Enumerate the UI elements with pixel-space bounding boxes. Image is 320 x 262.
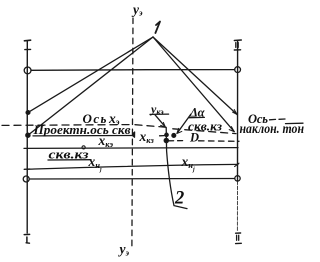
lower-right pulley circle: [235, 176, 240, 181]
node 2b on leader: [164, 138, 168, 142]
measurement tick left of node: [160, 135, 164, 137]
svg-text:скв.кз: скв.кз: [49, 146, 89, 161]
dashed axis continues to point 2: [135, 125, 166, 128]
ray B: from point 1 to lower-left node: [28, 37, 153, 135]
upper-left pulley circle: [24, 67, 31, 74]
ray D arrowhead: [233, 110, 238, 115]
leader of label delta-alpha with arrow: [178, 114, 191, 132]
upper-right pulley circle: [235, 67, 241, 73]
horizontal line x-n left tick: [24, 168, 30, 170]
dashed D line: [169, 140, 186, 142]
horizontal line x-n: [27, 164, 238, 169]
svg-text:укэ: укэ: [149, 102, 164, 117]
horizontal line x-ke level: [24, 147, 238, 150]
underline of delta-alpha: [189, 116, 205, 118]
ray D: from point 1 to right plumb line: [153, 37, 237, 115]
underline serif: [134, 132, 136, 137]
underline of U_ke: [150, 113, 169, 115]
upper horizontal reference line: [31, 69, 235, 72]
svg-text:Проектн.ось скв: Проектн.ось скв: [32, 123, 130, 137]
svg-text:уэ: уэ: [131, 2, 143, 18]
ray E arrowhead: [229, 127, 234, 132]
node on left plumb line (lower): [26, 133, 30, 137]
tick at right end of x-n line: [235, 163, 239, 166]
vertical dashed axis Y: [132, 18, 133, 246]
overline over ton: [286, 122, 304, 124]
svg-text:хнј: хнј: [181, 154, 195, 173]
svg-text:хкз: хкз: [139, 129, 155, 145]
svg-text:Δα: Δα: [189, 106, 206, 120]
svg-text:хнј: хнј: [88, 154, 102, 173]
underline of Proektn os skv: [33, 135, 134, 137]
lower horizontal line between pulleys: [29, 178, 235, 181]
horizontal dashed axis X: [2, 124, 131, 127]
underline of skv.kz left: [48, 159, 91, 161]
lower-left pulley circle: [23, 176, 29, 182]
dashes after Os label: [270, 118, 286, 121]
leader of label U_ke with arrow: [155, 115, 165, 127]
dashed inclined borehole axis skv.kz: [173, 129, 236, 134]
ray E: from point 1 to inclined axis: [153, 37, 234, 132]
node near delta-alpha: [172, 134, 176, 138]
svg-text:2: 2: [174, 189, 184, 209]
svg-text:уэ: уэ: [118, 242, 130, 258]
svg-text:D: D: [189, 131, 199, 145]
left plumb line I-I: [24, 40, 30, 243]
measurement tick at centre axis: [132, 133, 134, 137]
ray A: from point 1 to left node: [28, 37, 153, 112]
svg-text:наклон. тон: наклон. тон: [240, 121, 305, 136]
digit 1 stroke: [155, 22, 160, 33]
node 2a on leader: [165, 133, 168, 136]
right plumb line II-II: [234, 40, 241, 244]
node on left plumb line (upper): [26, 111, 30, 115]
leader line of point 2: [166, 127, 187, 208]
knot on x-ke line: [82, 146, 85, 149]
